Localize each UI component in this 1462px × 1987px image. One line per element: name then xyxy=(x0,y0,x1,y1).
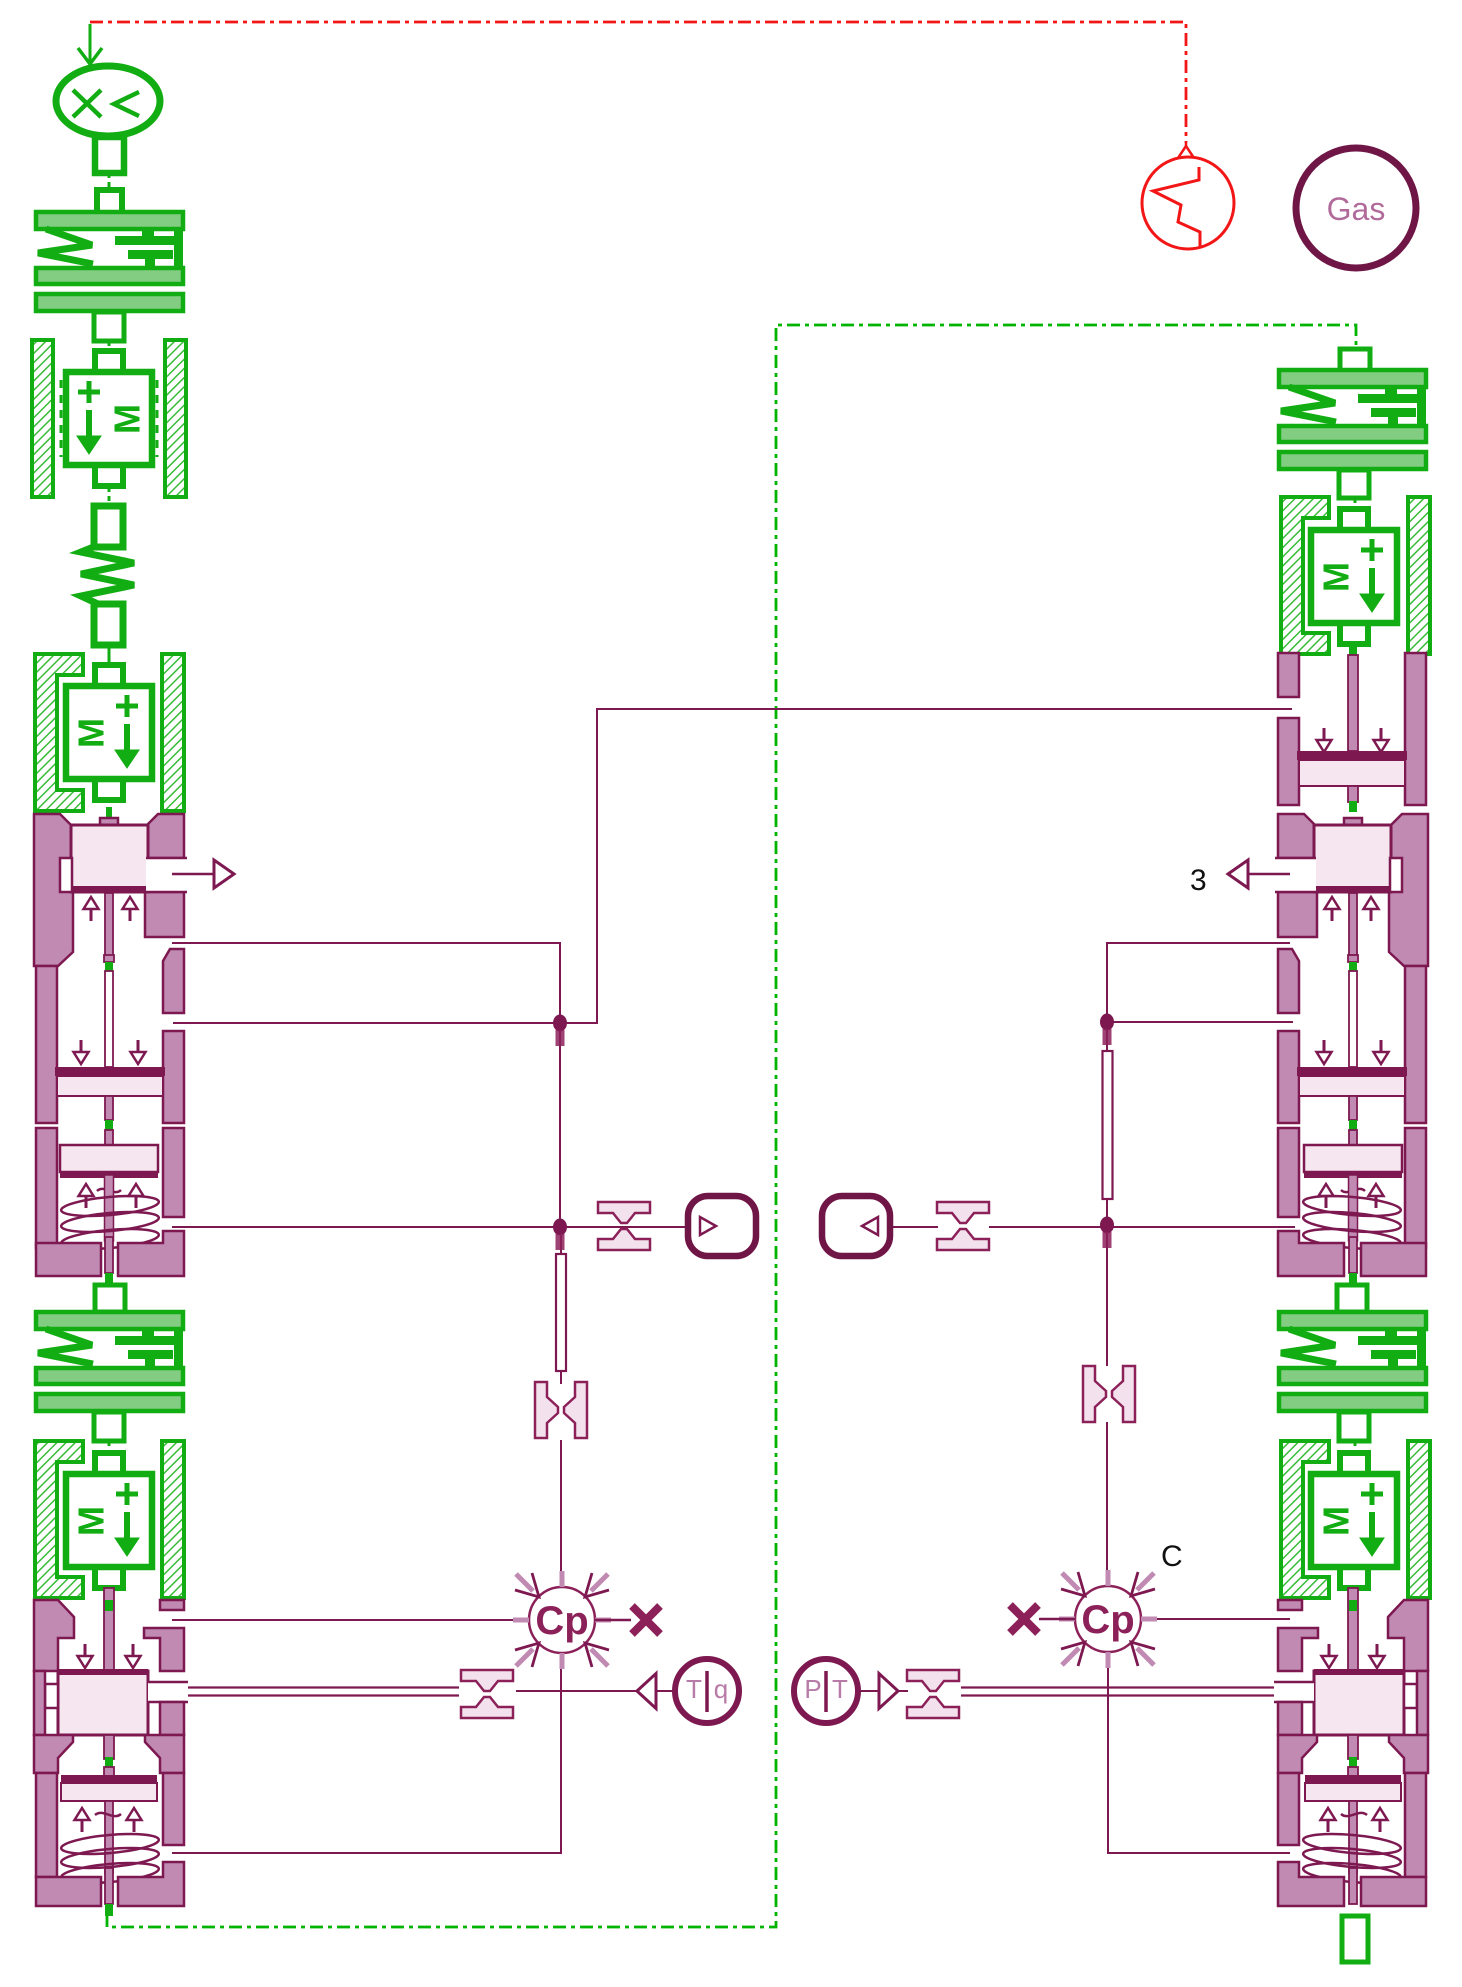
wire port A left piston to junction J1 xyxy=(172,943,560,1021)
hatched walls of mass M2 xyxy=(35,654,184,811)
svg-text:M: M xyxy=(1316,562,1357,592)
svg-text:Cp: Cp xyxy=(535,1599,588,1643)
rod-spring-rod between M1 and M2 xyxy=(81,487,134,665)
svg-text:Cp: Cp xyxy=(1081,1598,1134,1642)
velocity source (x<) xyxy=(56,66,160,136)
wire arrowhead to right orifice xyxy=(898,1690,908,1692)
wire into sensor T|P xyxy=(656,1690,675,1692)
mass M5 xyxy=(1311,1453,1397,1588)
wire J2 to left piston spring port xyxy=(172,1226,560,1228)
valve left vertical xyxy=(535,1382,587,1438)
hatched walls of right mass M4 xyxy=(1281,497,1430,654)
pneumatic volume right xyxy=(822,1196,890,1256)
signal generator (red) xyxy=(1142,143,1234,249)
wire red dash-dot from signal source to velocity source xyxy=(90,22,1186,143)
svg-text:3: 3 xyxy=(1190,864,1207,897)
mass M4 xyxy=(1311,509,1397,644)
wire port B left piston via riser to right piston top port xyxy=(173,709,1292,1023)
orifice right (row 2) xyxy=(907,1670,959,1718)
wire port A right piston to junction J1R xyxy=(1107,943,1290,1020)
sensor P|T right xyxy=(794,1659,858,1723)
wire valve to Cp-right top xyxy=(1106,1422,1108,1588)
heat exchange unit Cp right xyxy=(1010,1570,1157,1668)
svg-text:q: q xyxy=(714,1674,728,1704)
wire J1R to right piston port B xyxy=(1107,1021,1293,1023)
rod connector top right xyxy=(1340,349,1370,373)
rod into left piston xyxy=(106,807,112,818)
svg-text:M: M xyxy=(71,1506,112,1536)
pneumatic pipe below J2 xyxy=(556,1234,566,1384)
svg-text:C: C xyxy=(1161,1540,1183,1573)
wire J2R to right orifice xyxy=(989,1226,1107,1228)
orifice left (row 2) xyxy=(461,1670,513,1718)
spring-damper SD2 right xyxy=(1279,1312,1426,1453)
wire right volume to orifice xyxy=(890,1226,938,1228)
svg-text:Gas: Gas xyxy=(1327,191,1386,227)
wire sensor P|T to right orifice xyxy=(858,1690,879,1692)
svg-text:P: P xyxy=(804,1674,821,1704)
pneumatic actuator left (upper) xyxy=(34,814,234,1312)
hatched walls of mass M3 xyxy=(35,1441,184,1598)
orifice left (row 1) xyxy=(598,1202,650,1250)
wire Cp-right to right piston2 port xyxy=(1140,1618,1290,1620)
junction J1 xyxy=(553,1015,567,1047)
spring-damper SD1 right xyxy=(1279,370,1426,509)
hatched walls of right mass M5 xyxy=(1281,1441,1430,1598)
wire J2 to orifice and volume xyxy=(560,1226,688,1228)
arrowhead from sensor P|T xyxy=(879,1674,898,1709)
pneumatic actuator right (upper) xyxy=(1228,645,1428,1312)
junction J1R xyxy=(1100,1014,1114,1046)
rod connector below source xyxy=(95,137,124,213)
wire left piston2 port to Cp-left xyxy=(172,1619,529,1621)
svg-text:M: M xyxy=(71,718,112,748)
mass M3 xyxy=(66,1453,152,1588)
pneumatic pipe J1R to J2R xyxy=(1103,1030,1113,1218)
pneumatic pipe right orifice to right piston2 (double line) xyxy=(961,1688,1283,1696)
gas properties icon xyxy=(1296,148,1416,268)
hatched guide walls of mass M1 xyxy=(32,340,186,497)
pneumatic actuator left (lower) xyxy=(34,1588,188,1906)
green end body right piston2 xyxy=(1342,1916,1368,1962)
wire J1 to J2 xyxy=(559,1025,561,1225)
wire green dash-dot mechanical link (bottom-left piston to top-right column) xyxy=(107,325,1356,1927)
svg-text:M: M xyxy=(107,404,148,434)
rod into left piston2 xyxy=(106,1588,112,1600)
wire J2R to right piston spring port xyxy=(1107,1226,1295,1228)
junction J2R xyxy=(1100,1217,1114,1249)
valve right vertical xyxy=(1083,1366,1135,1422)
mass M2 xyxy=(66,665,152,800)
wire Cp-right bottom to right piston2 spring port xyxy=(1108,1652,1290,1853)
green rod end left piston2 xyxy=(105,1904,113,1916)
arrowhead to sensor T|P xyxy=(637,1674,656,1709)
pneumatic actuator right (lower) xyxy=(1274,1588,1428,1906)
pneumatic volume left xyxy=(688,1196,756,1256)
wire valve to Cp-left top xyxy=(560,1440,562,1588)
wire Cp-left bottom to piston2 spring port xyxy=(172,1652,561,1853)
spring-damper SD1 left xyxy=(36,212,183,351)
heat exchange unit Cp left xyxy=(513,1571,660,1669)
junction J2 xyxy=(553,1219,567,1251)
svg-text:M: M xyxy=(1316,1506,1357,1536)
pneumatic pipe left piston2 to orifice (double line) xyxy=(158,1688,459,1696)
svg-text:T: T xyxy=(686,1674,702,1704)
spring-damper SD2 left xyxy=(36,1312,183,1453)
sensor T|P left xyxy=(675,1659,739,1723)
mass M1 xyxy=(61,351,157,486)
orifice right (row 1) xyxy=(937,1202,989,1250)
label C xyxy=(1161,1540,1183,1573)
label 3 xyxy=(1190,864,1207,897)
signal arrow into velocity source xyxy=(78,24,102,64)
svg-text:T: T xyxy=(832,1674,848,1704)
wire J2R down to valve xyxy=(1106,1227,1108,1366)
wire orifice to sensor T|P xyxy=(516,1690,637,1692)
